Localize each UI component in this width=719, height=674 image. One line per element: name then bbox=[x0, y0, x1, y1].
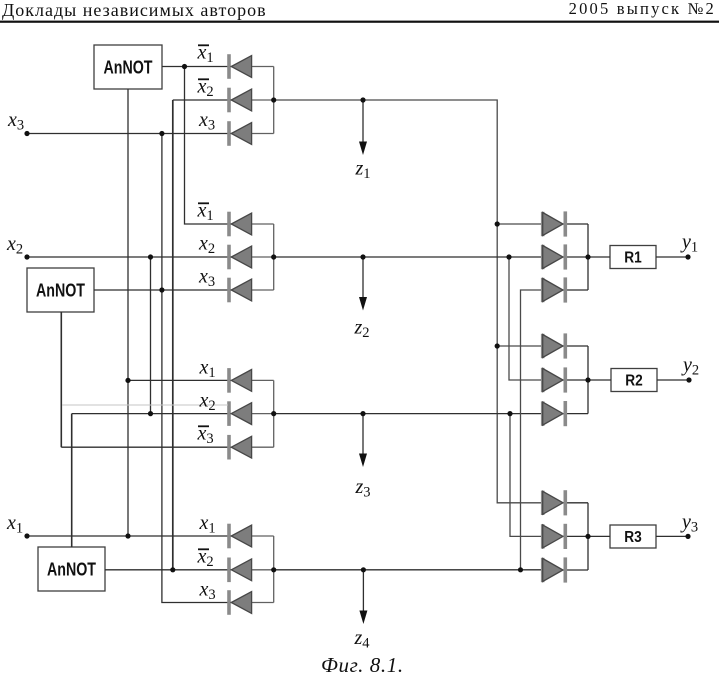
svg-text:x2: x2 bbox=[197, 75, 214, 100]
wire z1 output net bbox=[274, 100, 544, 503]
svg-text:Доклады независимых авторов: Доклады независимых авторов bbox=[2, 0, 267, 20]
wire z1 to R1 row1 bbox=[497, 223, 543, 225]
diode D6 group2 bbox=[229, 278, 252, 303]
resistor R3 bbox=[610, 525, 656, 548]
junction z1 to R2 row1 bbox=[495, 343, 500, 348]
wire x̄3 row group3 bbox=[61, 446, 232, 448]
node label x3 input bbox=[7, 109, 24, 134]
node y3 terminal dot bbox=[685, 534, 690, 539]
junction R3 bus output bbox=[585, 534, 590, 539]
wire R2 leads bbox=[588, 379, 689, 381]
label x̄1 group1 bbox=[197, 41, 214, 66]
junction R1 bus output bbox=[585, 254, 590, 259]
group4 output bus bbox=[252, 536, 274, 603]
svg-text:x1: x1 bbox=[6, 512, 23, 537]
label x2 group2 bbox=[198, 232, 215, 256]
wire input x3 line bbox=[27, 133, 232, 135]
node label x1 input bbox=[6, 512, 23, 537]
svg-text:x2: x2 bbox=[198, 232, 215, 256]
diode D13 R1-group bbox=[543, 211, 566, 236]
junction z4 bus tap bbox=[271, 567, 276, 572]
label x̄2 group1 bbox=[197, 75, 214, 100]
node z3 arrow bbox=[355, 414, 371, 501]
svg-text:x3: x3 bbox=[199, 578, 216, 603]
svg-text:x2: x2 bbox=[199, 389, 216, 414]
svg-text:x2: x2 bbox=[6, 233, 23, 257]
svg-text:AnNOT: AnNOT bbox=[36, 280, 85, 300]
wire z2 branch to R2 row2 bbox=[509, 257, 544, 380]
junction z1 to R1 row1 bbox=[495, 221, 500, 226]
svg-text:x1: x1 bbox=[199, 512, 216, 537]
diode D7 group3 bbox=[229, 368, 252, 393]
label x3 group2 bbox=[198, 265, 215, 290]
wire U1 output x̄1 bbox=[162, 66, 232, 68]
diode D12 group4 bbox=[229, 590, 252, 615]
svg-text:z1: z1 bbox=[355, 158, 371, 183]
junction z1 bus tap bbox=[271, 97, 276, 102]
wire x̄2 horizontal group1 bbox=[173, 99, 233, 101]
wire R3 leads bbox=[588, 535, 688, 537]
junction R2 bus output bbox=[585, 377, 590, 382]
svg-text:y1: y1 bbox=[680, 231, 698, 256]
R3 group output bus bbox=[562, 503, 588, 570]
wire x̄2 vertical net bbox=[172, 100, 174, 570]
label x̄1 group2 bbox=[197, 199, 214, 224]
junction z1 arrow tap bbox=[360, 97, 365, 102]
label x̄3 group3 bbox=[197, 422, 214, 447]
diode D15 R1-group bbox=[543, 277, 566, 302]
node z1 arrow bbox=[355, 100, 371, 182]
junction x̄1 branch bbox=[182, 64, 187, 69]
wire U2 output x̄3 vertical bbox=[60, 312, 62, 447]
svg-text:AnNOT: AnNOT bbox=[47, 559, 96, 579]
group1 output bus bbox=[252, 67, 274, 134]
svg-text:x1: x1 bbox=[199, 356, 216, 381]
R1 group output bus bbox=[562, 224, 588, 290]
junction z4 arrow tap bbox=[361, 567, 366, 572]
wire x2 row group3 bbox=[72, 413, 233, 415]
svg-text:x1: x1 bbox=[197, 41, 214, 66]
label x3 group4 bbox=[199, 578, 216, 603]
wire x2 branch vertical bbox=[150, 257, 152, 414]
wire z4 branch to R1 row3 bbox=[521, 290, 544, 570]
wire U2 input x3 horizontal bbox=[94, 289, 232, 291]
diode D19 R3-group bbox=[543, 490, 566, 515]
svg-text:x2: x2 bbox=[197, 545, 214, 570]
svg-text:R3: R3 bbox=[624, 529, 642, 546]
junction x3 into group2 bbox=[159, 287, 164, 292]
svg-text:R1: R1 bbox=[624, 249, 642, 266]
wire x1 branch to group3 bbox=[128, 379, 232, 381]
svg-text:z3: z3 bbox=[355, 476, 371, 501]
svg-text:x3: x3 bbox=[197, 422, 214, 447]
svg-text:R2: R2 bbox=[625, 372, 643, 389]
wire z2 output net bbox=[274, 256, 544, 258]
svg-text:x3: x3 bbox=[198, 265, 215, 290]
junction z2 branch down bbox=[506, 254, 511, 259]
label x2 group3 bbox=[199, 389, 216, 414]
resistor R1 bbox=[610, 246, 656, 269]
node z2 arrow bbox=[354, 257, 370, 341]
node z4 arrow bbox=[354, 570, 371, 652]
junction z2 bus tap bbox=[271, 254, 276, 259]
group2 output bus bbox=[252, 224, 274, 290]
junction x2 input terminal bbox=[24, 254, 29, 259]
wire z3 branch to R3 row2 bbox=[510, 414, 544, 537]
junction x1 into group3 bbox=[125, 378, 130, 383]
junction x1 into group4 bbox=[125, 533, 130, 538]
diode D3 group1 bbox=[229, 121, 252, 146]
group3 output bus bbox=[252, 380, 274, 447]
svg-text:2005 выпуск №2: 2005 выпуск №2 bbox=[569, 0, 716, 18]
wire U3 input vertical bbox=[71, 414, 73, 547]
diode D2 group1 bbox=[229, 88, 252, 113]
op-block U2 AnNOT bbox=[27, 268, 94, 312]
node y2 terminal dot bbox=[686, 377, 691, 382]
node label x2 input bbox=[6, 233, 23, 257]
wire input x2 line bbox=[27, 256, 232, 258]
wire R1 leads bbox=[588, 256, 688, 258]
node y1 terminal dot bbox=[685, 254, 690, 259]
diode D9 group3 bbox=[229, 435, 252, 460]
label x3 group1 bbox=[198, 109, 215, 134]
op-block U3 AnNOT bbox=[38, 547, 105, 591]
label x̄2 group4 bbox=[197, 545, 214, 570]
wire x3 branch vertical bbox=[162, 134, 232, 603]
svg-text:y3: y3 bbox=[680, 511, 698, 536]
wire U1 input x1 vertical bbox=[127, 89, 129, 536]
junction x3 input terminal bbox=[24, 131, 29, 136]
junction z3 bus tap bbox=[271, 411, 276, 416]
diode D11 group4 bbox=[229, 558, 252, 583]
junction z3 branch down bbox=[507, 411, 512, 416]
junction x̄2 into group4 bbox=[170, 567, 175, 572]
label x1 group4 bbox=[199, 512, 216, 537]
wire z4 output net bbox=[274, 569, 544, 571]
svg-text:y2: y2 bbox=[681, 354, 699, 379]
wire z1 to R2 row1 bbox=[497, 345, 543, 347]
svg-text:x3: x3 bbox=[7, 109, 24, 134]
header rule bbox=[0, 21, 719, 23]
diode D10 group4 bbox=[229, 524, 252, 549]
junction z2 arrow tap bbox=[360, 254, 365, 259]
wire x̄1 branch to group2 bbox=[185, 67, 233, 225]
diode D17 R2-group bbox=[543, 367, 566, 392]
svg-text:z2: z2 bbox=[354, 317, 370, 342]
diode D1 group1 bbox=[229, 54, 252, 79]
diode D5 group2 bbox=[229, 245, 252, 270]
diode D21 R3-group bbox=[543, 557, 566, 582]
faint scan line bbox=[62, 404, 228, 406]
op-block U1 AnNOT bbox=[94, 45, 162, 89]
wire U3 output x̄2 bbox=[105, 569, 232, 571]
junction z3 arrow tap bbox=[360, 411, 365, 416]
diode D18 R2-group bbox=[543, 401, 566, 426]
svg-text:x3: x3 bbox=[198, 109, 215, 134]
label x1 group3 bbox=[199, 356, 216, 381]
svg-text:x1: x1 bbox=[197, 199, 214, 224]
diode D14 R1-group bbox=[543, 244, 566, 269]
junction z4 to R1 row3 bbox=[518, 567, 523, 572]
diode D16 R2-group bbox=[543, 333, 566, 358]
junction x1 input terminal bbox=[24, 533, 29, 538]
svg-text:AnNOT: AnNOT bbox=[104, 57, 153, 77]
diode D8 group3 bbox=[229, 401, 252, 426]
wire z3 output net bbox=[274, 413, 544, 415]
wire input x1 line bbox=[27, 535, 232, 537]
R2 group output bus bbox=[562, 346, 588, 414]
junction x2 into group3 bbox=[148, 411, 153, 416]
junction x3 branch bbox=[159, 131, 164, 136]
resistor R2 bbox=[611, 369, 657, 392]
svg-text:Фиг. 8.1.: Фиг. 8.1. bbox=[321, 653, 404, 674]
diode D20 R3-group bbox=[543, 524, 566, 549]
junction x2 branch bbox=[148, 254, 153, 259]
diode D4 group2 bbox=[229, 212, 252, 237]
svg-text:z4: z4 bbox=[354, 627, 371, 652]
